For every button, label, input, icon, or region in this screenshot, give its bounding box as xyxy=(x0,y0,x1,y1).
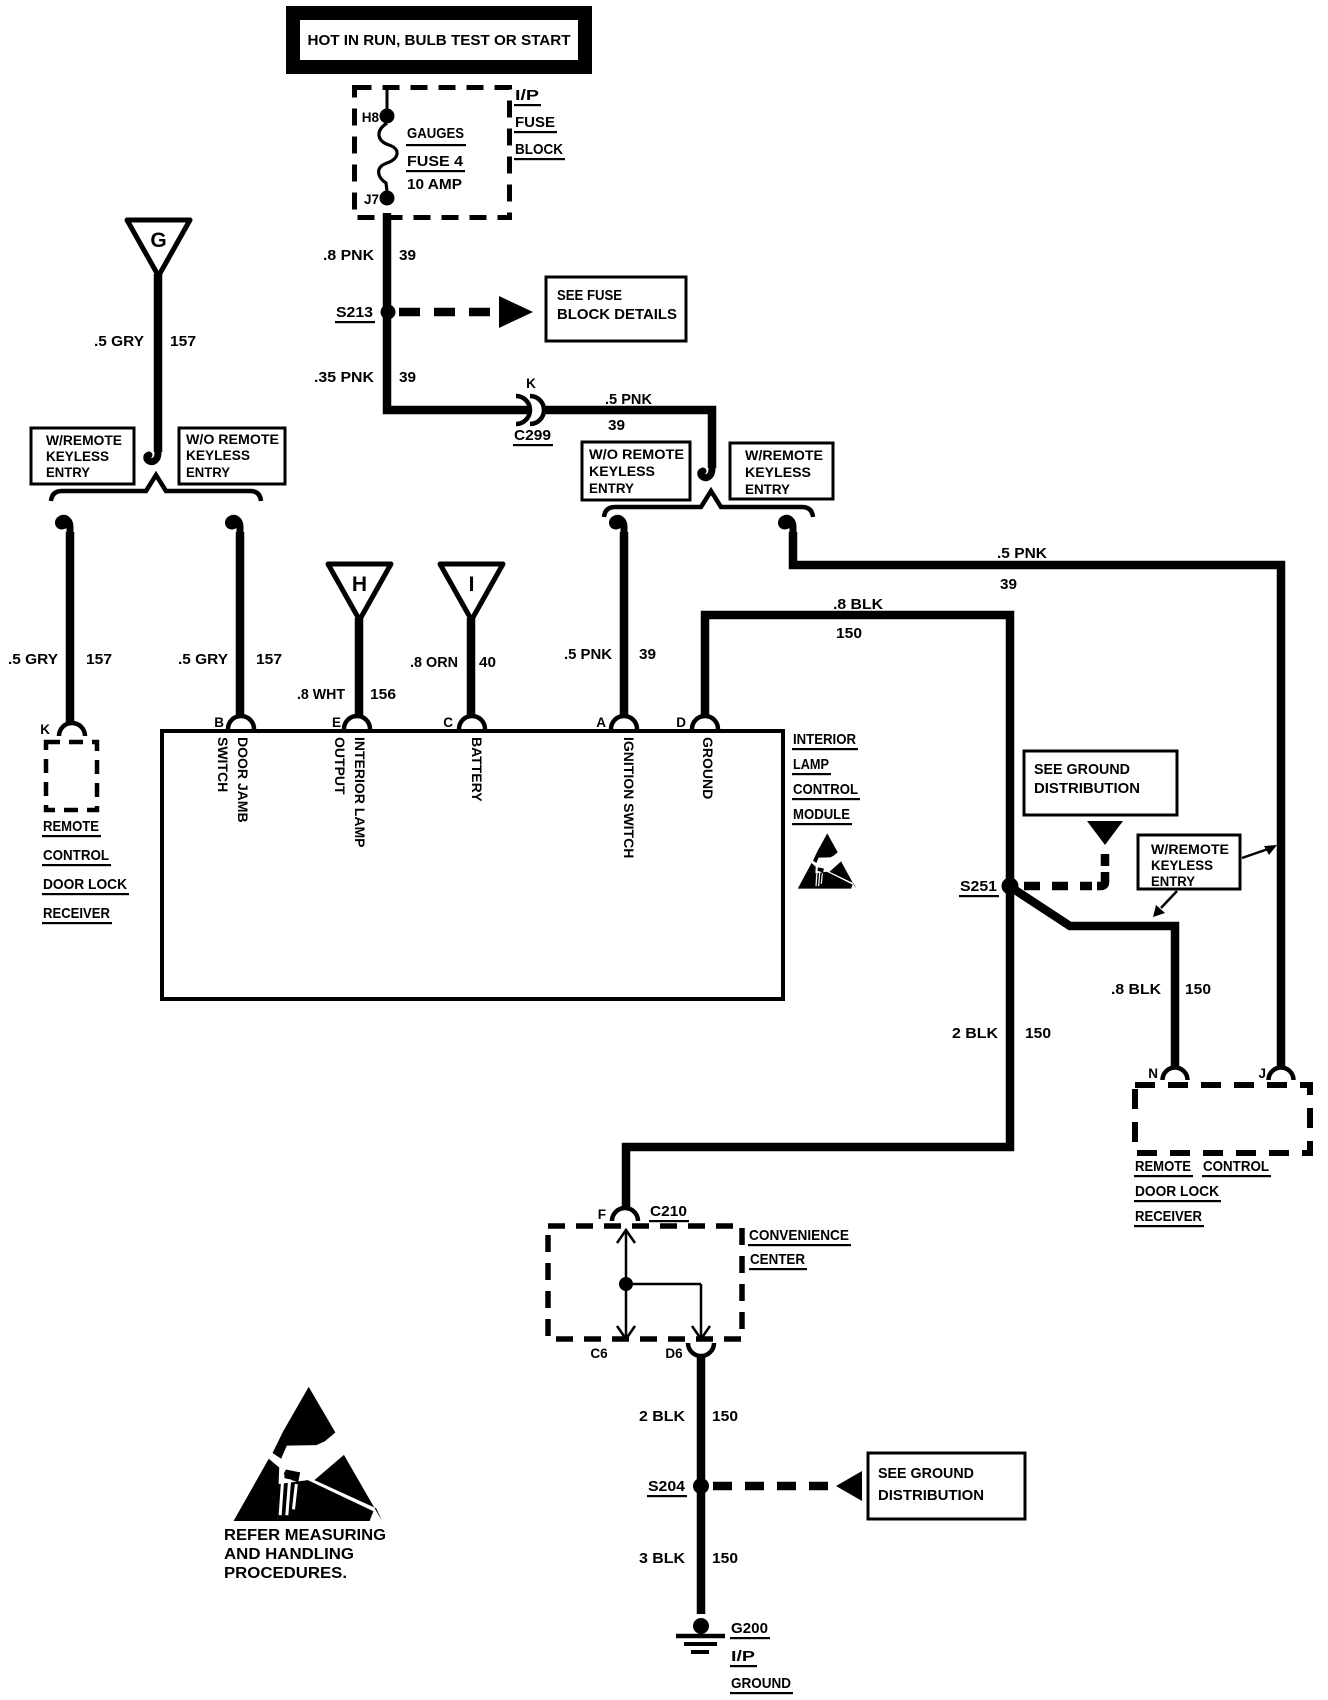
svg-text:DOOR JAMB: DOOR JAMB xyxy=(235,737,251,823)
svg-text:W/REMOTE: W/REMOTE xyxy=(1151,842,1229,857)
I/P fuse block dashed box xyxy=(355,88,510,218)
svg-text:W/O REMOTE: W/O REMOTE xyxy=(186,432,279,447)
svg-text:K: K xyxy=(40,722,50,737)
label .5 GRY 157 (pin B) xyxy=(178,651,282,668)
svg-text:W/O REMOTE: W/O REMOTE xyxy=(589,447,684,462)
svg-text:ENTRY: ENTRY xyxy=(745,482,790,497)
svg-text:CONVENIENCE: CONVENIENCE xyxy=(749,1227,849,1244)
svg-text:CONTROL: CONTROL xyxy=(1203,1158,1269,1175)
svg-text:H: H xyxy=(352,573,367,596)
module pin A xyxy=(596,715,637,858)
svg-text:BLOCK: BLOCK xyxy=(515,141,563,158)
svg-text:.8 WHT: .8 WHT xyxy=(297,686,345,703)
label I/P FUSE BLOCK xyxy=(514,87,565,160)
svg-text:J7: J7 xyxy=(364,192,379,207)
module pin B xyxy=(214,715,254,823)
svg-text:GROUND: GROUND xyxy=(700,737,716,799)
svg-text:REMOTE: REMOTE xyxy=(43,818,99,835)
fuse GAUGES FUSE 4 10 AMP xyxy=(379,123,466,193)
box SEE GROUND DISTRIBUTION (lower) xyxy=(868,1453,1025,1519)
svg-text:G: G xyxy=(150,229,166,252)
wire .8 WHT 156 to module pin E xyxy=(355,618,364,716)
svg-text:.8 BLK: .8 BLK xyxy=(833,596,883,613)
svg-text:.8 ORN: .8 ORN xyxy=(410,654,458,671)
wire .5 GRY 157 to receiver pin K xyxy=(66,532,75,724)
svg-text:FUSE 4: FUSE 4 xyxy=(407,153,464,170)
label .8 WHT 156 xyxy=(297,686,396,703)
svg-text:W/REMOTE: W/REMOTE xyxy=(745,448,823,463)
wire .8 ORN 40 to module pin C xyxy=(467,618,476,716)
svg-text:D6: D6 xyxy=(665,1346,683,1361)
svg-text:SEE FUSE: SEE FUSE xyxy=(557,287,622,304)
svg-text:.5 PNK: .5 PNK xyxy=(997,545,1047,562)
svg-text:157: 157 xyxy=(256,651,282,668)
svg-text:150: 150 xyxy=(1025,1025,1051,1042)
svg-text:I/P: I/P xyxy=(515,87,539,104)
svg-text:RECEIVER: RECEIVER xyxy=(1135,1208,1202,1225)
svg-text:CONTROL: CONTROL xyxy=(43,847,109,864)
svg-text:39: 39 xyxy=(639,646,656,663)
svg-text:BATTERY: BATTERY xyxy=(469,737,485,802)
brace splitting wire to K and B branches xyxy=(51,475,261,501)
label 2 BLK 150 (vertical run) xyxy=(952,1025,1051,1042)
svg-text:ENTRY: ENTRY xyxy=(1151,874,1195,889)
svg-text:S213: S213 xyxy=(336,304,373,321)
label .8 BLK 150 (pin D run) xyxy=(833,596,883,642)
svg-text:157: 157 xyxy=(86,651,112,668)
wire .5 PNK 39 to receiver pin J xyxy=(793,532,1281,1068)
connector C299 terminal K xyxy=(513,376,553,446)
svg-text:AND HANDLING: AND HANDLING xyxy=(224,1546,354,1563)
pin K arc xyxy=(59,723,85,736)
connector triangle G xyxy=(127,220,190,276)
svg-text:LAMP: LAMP xyxy=(793,756,829,773)
wire .8 PNK 39 from fuse J7 down xyxy=(387,213,530,410)
label REMOTE CONTROL DOOR LOCK RECEIVER (left) xyxy=(42,818,129,924)
ESD symbol (module) xyxy=(798,833,856,888)
convenience center dashed box xyxy=(548,1226,742,1339)
splice S251 xyxy=(959,878,1019,898)
svg-text:DISTRIBUTION: DISTRIBUTION xyxy=(878,1487,984,1504)
svg-text:REFER MEASURING: REFER MEASURING xyxy=(224,1527,386,1544)
power feed box HOT IN RUN, BULB TEST OR START xyxy=(293,13,585,67)
wire end curl at branch point xyxy=(701,462,712,478)
module pin E xyxy=(332,715,370,847)
svg-text:ENTRY: ENTRY xyxy=(186,465,230,480)
svg-text:.5 GRY: .5 GRY xyxy=(94,333,144,350)
label .8 PNK 39 xyxy=(323,247,416,264)
svg-text:FUSE: FUSE xyxy=(515,114,555,131)
svg-text:C6: C6 xyxy=(590,1346,608,1361)
label INTERIOR LAMP CONTROL MODULE xyxy=(792,731,860,825)
svg-text:I/P: I/P xyxy=(731,1648,755,1665)
svg-text:156: 156 xyxy=(370,686,396,703)
svg-text:C210: C210 xyxy=(650,1203,687,1220)
pin F arc with connector C210 xyxy=(598,1203,689,1222)
svg-text:39: 39 xyxy=(608,417,625,434)
callout arrow to N wire xyxy=(1153,891,1177,917)
branch hook to door jamb switch input xyxy=(228,518,240,534)
label REFER MEASURING AND HANDLING PROCEDURES xyxy=(224,1527,386,1582)
box SEE FUSE BLOCK DETAILS xyxy=(546,277,686,341)
svg-text:DOOR LOCK: DOOR LOCK xyxy=(1135,1183,1219,1200)
svg-text:C: C xyxy=(443,715,453,730)
svg-text:40: 40 xyxy=(479,654,496,671)
svg-text:S251: S251 xyxy=(960,878,997,895)
terminal H8 xyxy=(362,109,395,126)
svg-text:INTERIOR LAMP: INTERIOR LAMP xyxy=(352,737,368,847)
branch hook to ignition switch feed xyxy=(612,518,624,534)
svg-text:.5 GRY: .5 GRY xyxy=(8,651,58,668)
svg-text:150: 150 xyxy=(836,625,862,642)
wire .5 PNK 39 from C299 to right branch point xyxy=(544,410,712,468)
svg-text:.8 PNK: .8 PNK xyxy=(323,247,374,264)
brace splitting wire to A and J branches xyxy=(604,491,813,517)
pin N arc xyxy=(1148,1066,1187,1081)
svg-text:2 BLK: 2 BLK xyxy=(639,1408,685,1425)
svg-text:.8 BLK: .8 BLK xyxy=(1111,981,1161,998)
svg-text:PROCEDURES.: PROCEDURES. xyxy=(224,1565,347,1582)
svg-text:39: 39 xyxy=(1000,576,1017,593)
pin D6 arc xyxy=(665,1343,714,1361)
branch hook to door lock receiver xyxy=(58,518,70,534)
svg-text:3 BLK: 3 BLK xyxy=(639,1550,685,1567)
svg-text:150: 150 xyxy=(712,1408,738,1425)
box W/REMOTE KEYLESS ENTRY (center) xyxy=(730,443,833,499)
svg-text:INTERIOR: INTERIOR xyxy=(793,731,856,748)
svg-text:.5 GRY: .5 GRY xyxy=(178,651,228,668)
svg-text:E: E xyxy=(332,715,341,730)
splice S213 xyxy=(335,304,396,323)
box SEE GROUND DISTRIBUTION (upper) xyxy=(1024,751,1177,815)
label 2 BLK 150 (below D6) xyxy=(639,1408,738,1425)
ground G200 I/P GROUND xyxy=(676,1618,793,1694)
label .35 PNK 39 xyxy=(314,369,416,386)
svg-text:ENTRY: ENTRY xyxy=(589,481,634,496)
splice S204 xyxy=(647,1478,709,1497)
module pin C xyxy=(443,715,485,802)
dashed reference arrow from S213 xyxy=(399,296,533,328)
wire .8 BLK 150 / 2 BLK 150 ground run from module pin D xyxy=(626,615,1010,1212)
svg-text:39: 39 xyxy=(399,369,416,386)
dashed reference from S204 to ground distribution xyxy=(713,1471,862,1501)
svg-text:CONTROL: CONTROL xyxy=(793,781,858,798)
box W/REMOTE KEYLESS ENTRY (left) xyxy=(31,428,134,484)
svg-text:J: J xyxy=(1258,1066,1266,1081)
wire .5 PNK 39 to module pin A xyxy=(620,532,629,716)
svg-text:MODULE: MODULE xyxy=(793,806,850,823)
svg-text:OUTPUT: OUTPUT xyxy=(332,737,348,795)
svg-text:D: D xyxy=(676,715,686,730)
svg-text:GAUGES: GAUGES xyxy=(407,125,464,142)
svg-text:W/REMOTE: W/REMOTE xyxy=(46,433,122,448)
connector triangle I xyxy=(440,564,503,620)
svg-text:.5 PNK: .5 PNK xyxy=(605,391,652,408)
svg-text:39: 39 xyxy=(399,247,416,264)
svg-text:SWITCH: SWITCH xyxy=(215,737,231,792)
svg-text:H8: H8 xyxy=(362,110,380,125)
svg-text:GROUND: GROUND xyxy=(731,1675,791,1692)
wire 2 BLK 150 from D6 to S204 to ground xyxy=(697,1356,706,1614)
svg-text:10 AMP: 10 AMP xyxy=(407,176,462,193)
svg-text:SEE GROUND: SEE GROUND xyxy=(1034,761,1130,778)
ESD warning symbol xyxy=(234,1387,382,1521)
svg-text:KEYLESS: KEYLESS xyxy=(745,465,811,480)
svg-text:C299: C299 xyxy=(514,427,551,444)
wire from power feed into fuse block xyxy=(386,86,389,110)
module pin D xyxy=(676,715,718,799)
svg-text:157: 157 xyxy=(170,333,196,350)
svg-text:N: N xyxy=(1148,1066,1158,1081)
box W/O REMOTE KEYLESS ENTRY (center) xyxy=(582,442,690,500)
svg-text:B: B xyxy=(214,715,224,730)
wire .8 BLK 150 from S251 to receiver pin N xyxy=(1012,888,1175,1068)
box W/O REMOTE KEYLESS ENTRY (left) xyxy=(179,428,285,484)
wire .5 GRY 157 from G xyxy=(154,274,163,452)
label .5 PNK 39 at C299 xyxy=(605,391,652,434)
svg-text:REMOTE: REMOTE xyxy=(1135,1158,1191,1175)
remote control door lock receiver (left) dashed box xyxy=(46,742,97,810)
label REMOTE CONTROL DOOR LOCK RECEIVER (right) xyxy=(1134,1158,1271,1227)
svg-text:.35 PNK: .35 PNK xyxy=(314,369,374,386)
svg-text:DISTRIBUTION: DISTRIBUTION xyxy=(1034,780,1140,797)
interior lamp control module box xyxy=(162,731,783,999)
svg-text:KEYLESS: KEYLESS xyxy=(186,448,250,463)
svg-text:HOT IN RUN, BULB TEST OR START: HOT IN RUN, BULB TEST OR START xyxy=(308,32,571,49)
label .5 PNK 39 (pin A) xyxy=(564,646,656,663)
pin J arc xyxy=(1258,1066,1293,1081)
svg-text:2 BLK: 2 BLK xyxy=(952,1025,998,1042)
label .5 PNK 39 (long run) xyxy=(997,545,1047,593)
box W/REMOTE KEYLESS ENTRY (right) xyxy=(1138,835,1240,889)
svg-text:DOOR LOCK: DOOR LOCK xyxy=(43,876,127,893)
svg-text:F: F xyxy=(598,1207,606,1222)
svg-text:G200: G200 xyxy=(731,1620,768,1637)
svg-text:S204: S204 xyxy=(648,1478,686,1495)
svg-text:A: A xyxy=(596,715,606,730)
connector triangle H xyxy=(328,564,391,620)
terminal J7 xyxy=(364,191,395,208)
svg-text:SEE GROUND: SEE GROUND xyxy=(878,1465,974,1482)
wire .5 GRY 157 to module pin B xyxy=(236,532,245,716)
label CONVENIENCE CENTER xyxy=(748,1227,851,1270)
svg-text:BLOCK DETAILS: BLOCK DETAILS xyxy=(557,306,677,323)
label 3 BLK 150 xyxy=(639,1550,738,1567)
svg-text:RECEIVER: RECEIVER xyxy=(43,905,110,922)
svg-text:IGNITION SWITCH: IGNITION SWITCH xyxy=(621,737,637,858)
dashed reference from S251 to ground distribution xyxy=(1024,821,1123,886)
label .8 BLK 150 (pin N) xyxy=(1111,981,1211,998)
svg-text:KEYLESS: KEYLESS xyxy=(1151,858,1213,873)
svg-text:KEYLESS: KEYLESS xyxy=(589,464,655,479)
svg-text:KEYLESS: KEYLESS xyxy=(46,449,109,464)
branch hook to keyless entry feed xyxy=(781,518,793,534)
svg-text:ENTRY: ENTRY xyxy=(46,465,90,480)
callout arrow to J wire xyxy=(1242,845,1277,858)
svg-text:150: 150 xyxy=(1185,981,1211,998)
svg-text:I: I xyxy=(469,573,475,596)
svg-text:CENTER: CENTER xyxy=(750,1251,805,1268)
remote control door lock receiver (right) dashed box xyxy=(1135,1085,1310,1153)
svg-text:K: K xyxy=(526,376,536,391)
wire end curl above brace xyxy=(147,446,158,462)
internal circuit lines xyxy=(617,1230,710,1339)
label .8 ORN 40 xyxy=(410,654,496,671)
label .5 GRY 157 (G) xyxy=(94,333,196,350)
svg-text:150: 150 xyxy=(712,1550,738,1567)
label .5 GRY 157 (pin K) xyxy=(8,651,112,668)
svg-text:.5 PNK: .5 PNK xyxy=(564,646,612,663)
